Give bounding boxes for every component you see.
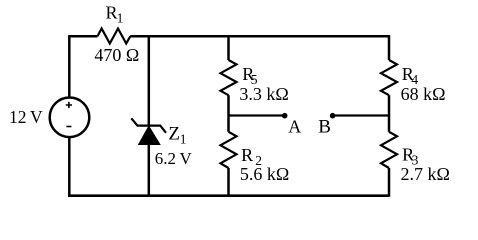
- svg-text:3.3 kΩ: 3.3 kΩ: [239, 84, 288, 104]
- node B terminal dot: [330, 113, 336, 119]
- voltage source minus sign: [66, 126, 71, 128]
- svg-text:Z: Z: [168, 124, 180, 145]
- voltage source plus sign: [66, 102, 72, 108]
- resistor R3: [381, 132, 397, 168]
- svg-text:68 kΩ: 68 kΩ: [401, 84, 446, 104]
- svg-text:470 Ω: 470 Ω: [94, 45, 139, 65]
- zener diode Z1 anode triangle: [139, 126, 160, 144]
- wire: top rail right segment: [130, 35, 389, 38]
- wire: zener branch upper: [148, 35, 151, 126]
- svg-text:5.6 kΩ: 5.6 kΩ: [240, 164, 289, 184]
- wire: right branch top: [388, 35, 391, 60]
- wire: middle branch middle: [227, 95, 230, 132]
- resistor R5: [221, 60, 237, 95]
- svg-text:R: R: [241, 145, 253, 165]
- wire: node B stub: [333, 114, 389, 116]
- wire: middle branch top: [227, 35, 230, 60]
- resistor R1: [98, 29, 131, 44]
- resistor R4: [381, 60, 397, 95]
- wire: bottom rail: [68, 194, 389, 197]
- node A terminal dot: [282, 113, 288, 119]
- voltage source circle: [50, 98, 90, 138]
- svg-text:A: A: [288, 116, 301, 136]
- svg-text:6.2 V: 6.2 V: [155, 149, 193, 168]
- wire: zener branch lower: [148, 144, 151, 197]
- wire: left vertical lower: [68, 137, 71, 197]
- svg-text:12 V: 12 V: [9, 107, 43, 127]
- wire: top rail left segment: [69, 35, 97, 38]
- svg-text:2.7 kΩ: 2.7 kΩ: [401, 164, 450, 184]
- svg-text:1: 1: [180, 132, 187, 147]
- resistor R2: [221, 132, 237, 168]
- wire: left vertical upper: [68, 35, 71, 98]
- wire: right branch bottom: [388, 168, 391, 197]
- wire: right branch middle: [388, 95, 391, 132]
- wire: middle branch bottom: [227, 168, 230, 197]
- zener diode Z1 cathode bar: [131, 118, 166, 133]
- wire: node A stub: [229, 114, 285, 116]
- svg-text:1: 1: [117, 11, 124, 26]
- svg-text:B: B: [318, 116, 331, 137]
